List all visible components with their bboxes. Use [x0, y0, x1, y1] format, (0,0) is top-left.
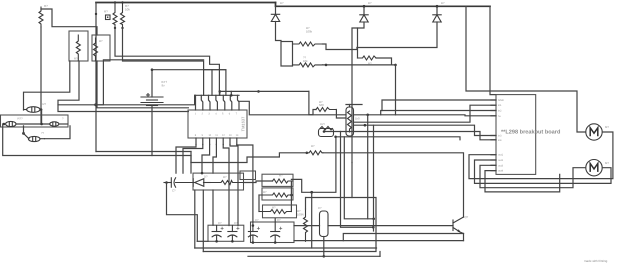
transistor Q1 [453, 215, 469, 234]
wire bus y240.6 [294, 240, 464, 242]
svg-text:D?: D? [204, 175, 208, 179]
wire long vertical x96 [95, 3, 97, 152]
svg-text:100R: 100R [297, 213, 304, 217]
wire trimpot wiper to bundle [354, 114, 396, 116]
svg-text:C?: C? [277, 218, 281, 222]
diode D4 [193, 175, 210, 187]
capacitor C2 [212, 221, 222, 243]
node bundle y125 [364, 124, 367, 127]
wire motor2 left loop [480, 165, 586, 187]
svg-text:C?: C? [172, 189, 176, 193]
resistor R1 [39, 4, 48, 27]
label box R2 [104, 10, 110, 20]
resistor R11 [259, 190, 291, 197]
wire bundle b3 [354, 125, 497, 135]
resistor R12 [259, 206, 291, 214]
wire C6 bottom [323, 237, 325, 257]
IC pin numbers [195, 113, 239, 138]
wire sensor node staircase up to IC rail [96, 60, 204, 105]
node C6 bottom bus [323, 255, 326, 258]
wire motor1 right loop [469, 132, 613, 179]
wire bundle b2 [354, 105, 497, 122]
svg-text:in2: in2 [498, 110, 502, 113]
node mid sensor row [40, 123, 43, 126]
IC pin stubs bottom [196, 138, 237, 145]
node R5 right [325, 64, 328, 67]
wire vertical x344 [344, 137, 373, 219]
node pot top [323, 130, 326, 133]
module U2 L298 breakout board [496, 95, 561, 175]
svg-text:GND: GND [498, 99, 504, 102]
svg-text:100k: 100k [306, 30, 313, 34]
diode D3 [433, 1, 445, 22]
wire R2 staircase s1 [115, 28, 219, 95]
wire C1 left down [167, 183, 198, 242]
svg-text:in3: in3 [498, 135, 502, 138]
caps module box 2 [251, 222, 295, 243]
electrolytic cap C6 [318, 206, 328, 237]
wire riser x194.8 [194, 190, 196, 248]
svg-text:R??: R?? [18, 117, 24, 121]
potentiometer RV2 [319, 123, 334, 137]
svg-text:R?: R? [279, 174, 283, 178]
wire in2 feed [396, 115, 497, 116]
wire R1 top node [41, 9, 97, 35]
svg-text:R?: R? [99, 39, 103, 43]
node cap3 bottom [252, 241, 255, 244]
node R7 left [306, 152, 309, 155]
svg-text:R?: R? [74, 57, 78, 61]
svg-text:C?: C? [234, 221, 238, 225]
svg-text:Q?: Q? [465, 215, 469, 219]
photo sensor box B [92, 35, 110, 61]
photo sensor box A [69, 31, 88, 61]
svg-text:R?: R? [311, 144, 315, 148]
resistor R10 [273, 174, 294, 184]
svg-text:in4: in4 [498, 139, 502, 142]
svg-text:C?: C? [218, 221, 222, 225]
R10 module box [262, 174, 293, 186]
svg-text:R?: R? [104, 10, 108, 14]
IC bottom fan wires [176, 145, 253, 226]
svg-text:??: ?? [41, 131, 45, 135]
node cap2 bottom [231, 240, 234, 243]
node chain box top [201, 172, 204, 175]
wire lower rail to IC [58, 105, 188, 112]
wire gnd upper [382, 100, 496, 111]
svg-text:M?: M? [605, 161, 609, 165]
wire R10-R11-R12 right riser [290, 181, 292, 212]
wire oval B to oval C [16, 123, 50, 125]
capacitor C5 [271, 218, 281, 244]
emitter-detector oval A [24, 102, 47, 112]
sensor row box [1, 115, 69, 127]
wire D3 cathode across [357, 22, 437, 48]
node R11 right [290, 194, 293, 197]
svg-text:R?: R? [44, 4, 48, 8]
wire y91 run [220, 90, 309, 92]
wire Q1 emitter left [343, 234, 463, 241]
caps module box 1 [208, 225, 244, 241]
L298 pin stubs left [491, 100, 496, 171]
wire trunk y151.5 [96, 151, 191, 153]
wire bundle to in2 pin [381, 111, 496, 115]
emitter-detector oval D [22, 131, 44, 142]
capacitor C3 [228, 221, 238, 241]
wire boxA to oval A lead [24, 61, 70, 110]
wire Q1 base run [328, 225, 453, 227]
node mid drop lower [372, 226, 375, 229]
wire bus y251 [203, 198, 376, 252]
wire top bus [96, 2, 276, 4]
svg-text:R?: R? [263, 190, 267, 194]
wire R9 to R10 [244, 181, 273, 183]
wire D1 cathode to loop [276, 22, 282, 41]
svg-text:C?: C? [318, 206, 322, 210]
resistor R8 [316, 100, 336, 112]
wire R4 right to D3 net [323, 44, 358, 50]
svg-text:R?: R? [223, 175, 227, 179]
resistor R3 [121, 1, 131, 29]
wire loop box edge to oval D [45, 126, 71, 139]
svg-text:**L298 breakout board: **L298 breakout board [501, 128, 561, 135]
wire R13 top [305, 198, 307, 210]
wire junction down-left to y91 [395, 65, 397, 115]
wire R3 staircase s2 [123, 28, 226, 95]
wire battery bottom to ground bus [151, 106, 153, 156]
wire chain rect left riser [190, 156, 192, 174]
chain module box [193, 173, 244, 190]
wire riser x213 [212, 190, 214, 225]
svg-text:RV?: RV? [320, 123, 326, 126]
wire bus right drop x466 to motor1 [466, 6, 586, 132]
wire bus4 to bus3 link [379, 252, 381, 257]
wire bundle b4 [336, 137, 460, 140]
wire loop rectangle [281, 42, 293, 67]
capacitor C1 [164, 178, 194, 193]
svg-text:R?: R? [43, 102, 47, 106]
resistor R2 [113, 1, 117, 29]
wire cap C5 feed from R12 box [274, 218, 276, 222]
emitter-detector oval B [3, 117, 23, 127]
wire motor2 right loop [475, 160, 612, 183]
node battery plus [151, 68, 154, 71]
R12 module box [263, 205, 297, 218]
wire top bus right half [276, 3, 491, 7]
wire y91 riser left [219, 91, 221, 95]
wire base long [294, 225, 320, 227]
svg-text:10k: 10k [125, 8, 130, 12]
node sensor junction [94, 103, 97, 106]
svg-text:C?: C? [255, 218, 259, 222]
wire R11 left riser [258, 195, 260, 212]
battery BT1 [141, 80, 167, 106]
emitter-detector oval C [50, 117, 64, 127]
wire sensor row left down to ground bus [3, 124, 191, 156]
wire wiper drop [367, 115, 369, 219]
wire boxA resistor bottom to sensor node [58, 61, 96, 105]
node wiper line [366, 114, 369, 117]
node pot right rail [334, 136, 337, 139]
capacitor C4 [248, 218, 259, 243]
wire battery top [151, 70, 153, 97]
node y91 mid [257, 90, 260, 93]
IC fan top bus [195, 95, 239, 110]
resistor R9 [210, 175, 244, 185]
svg-text:made with fritzing: made with fritzing [584, 259, 608, 263]
resistor R13 [297, 209, 308, 241]
wire trunk riser x191 [190, 152, 192, 163]
wire drop to fan bus 2 [211, 70, 213, 96]
resistor R7 [307, 144, 323, 155]
wire bus y241 [197, 240, 208, 242]
wire verticals mid-bottom [341, 132, 374, 228]
wire R5 to junction long [323, 64, 396, 66]
svg-text:out4: out4 [498, 170, 504, 173]
wire oval C right lead [59, 123, 68, 125]
diode D2 [360, 1, 372, 22]
svg-text:in1: in1 [498, 104, 502, 107]
capacitor plus marks [221, 227, 283, 230]
svg-text:R?: R? [272, 206, 276, 210]
wire riser x203 [202, 190, 204, 252]
wire boxB bottom staircase to IC [97, 61, 188, 108]
svg-text:1k0: 1k0 [355, 117, 360, 121]
svg-text:out2: out2 [498, 159, 504, 162]
svg-text:9v: 9v [162, 84, 166, 88]
wire sensor mid to IC [96, 95, 195, 105]
R11 module box [262, 188, 293, 200]
op IC U1 body [188, 110, 247, 138]
node fan bus [230, 94, 233, 97]
motor M1 [586, 124, 610, 140]
wire y91 riser mid [230, 91, 232, 95]
node mid drop upper [372, 218, 375, 221]
wire oval A node down [41, 110, 43, 125]
svg-text:TM1637: TM1637 [241, 116, 246, 131]
node y64.9 right [394, 64, 397, 67]
wire y91 corner to R8 [309, 91, 316, 114]
resistor R5 [293, 56, 323, 67]
wire R6 right lead [376, 58, 392, 65]
L298 pin labels [498, 99, 504, 173]
wire extra drops from battery rail [203, 70, 205, 96]
wire D2 cathode long vertical x352 [352, 22, 364, 163]
svg-text:D?: D? [280, 1, 284, 5]
diode D1 [271, 1, 284, 22]
wire junction drop to bus [311, 192, 313, 248]
svg-text:10k: 10k [303, 59, 308, 63]
node on x96 [95, 13, 97, 15]
wire battery plus to IC fan [152, 69, 226, 71]
wire loop to pot riser [291, 137, 336, 193]
trimmer RV1 [336, 105, 362, 137]
wire oval D left lead up [23, 126, 25, 133]
svg-text:R?: R? [368, 62, 372, 66]
node y91 left [219, 90, 222, 93]
connector module box [240, 171, 256, 180]
wire bus y248 [195, 247, 377, 249]
resistor R6 [358, 28, 377, 66]
svg-text:out3: out3 [498, 164, 504, 167]
svg-text:560: 560 [319, 103, 324, 107]
wire out4 return loop [485, 171, 560, 192]
wire bundle to in4 pin [324, 132, 496, 140]
wire battery-chain link y162.5 [191, 153, 307, 163]
svg-text:D?: D? [441, 1, 445, 5]
wire x352 lower [351, 163, 353, 198]
wire bus right drop x490 GND [490, 6, 496, 94]
wire IC right wrap to bundle [239, 101, 346, 115]
node loop junction [310, 191, 313, 194]
svg-text:M?: M? [605, 125, 609, 129]
resistor R4 [293, 26, 323, 46]
svg-text:D?: D? [368, 1, 372, 5]
wire bus y256 [248, 255, 380, 257]
wire R1 bottom to sensor row [40, 27, 42, 124]
wire vertical x373 [373, 125, 375, 231]
motor M2 [586, 160, 610, 176]
wire emitter drop [463, 234, 465, 241]
svg-text:out1: out1 [498, 154, 504, 157]
wire R7 to Q1 collector [323, 153, 464, 217]
